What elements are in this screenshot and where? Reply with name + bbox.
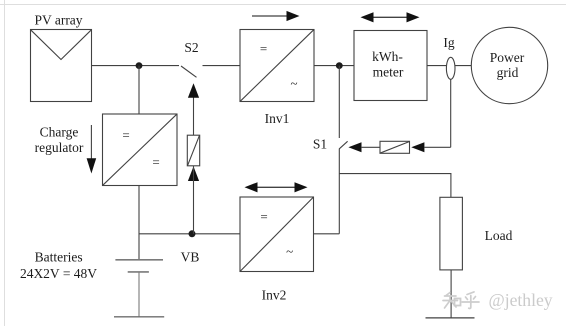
- svg-text:S1: S1: [313, 137, 327, 152]
- node: Inv1/S1 junction: [336, 62, 343, 69]
- load: [440, 197, 513, 270]
- node: PV/charge-regulator junction: [136, 62, 143, 69]
- wire: arrow to fuse: [361, 146, 380, 148]
- label Batteries: [20, 250, 97, 282]
- wire: S2 to Inv1: [203, 65, 241, 67]
- wire: resistor up to S2 blade: [193, 97, 195, 135]
- charge regulator U1 (DC-DC converter): [103, 114, 178, 186]
- svg-text:S2: S2: [184, 40, 198, 55]
- wire: battery bus to Inv2: [139, 233, 240, 235]
- wire: charge regulator down to battery: [138, 186, 140, 260]
- svg-text:=: =: [122, 128, 129, 143]
- op-amp arrow above Inv1 (power flow arrow): [252, 11, 300, 21]
- arrow up toward S2 (battery current IB): [188, 83, 199, 97]
- bidirectional arrow above Inv2: [245, 182, 308, 192]
- arrow toward S1 (current direction): [348, 142, 361, 152]
- inverter Inv2: [240, 197, 314, 303]
- svg-text:Charge: Charge: [40, 125, 79, 140]
- resistor (battery branch): [187, 135, 199, 166]
- svg-text:~: ~: [290, 75, 297, 90]
- wire: fuse branch to CT drop: [424, 146, 451, 148]
- arrow beside charge regulator (downward power flow): [87, 125, 97, 174]
- kWh-meter: [354, 31, 427, 101]
- svg-text:Ig: Ig: [443, 35, 454, 50]
- svg-text:=: =: [260, 41, 267, 56]
- battery B1 plates: [115, 260, 163, 317]
- wire: Inv2 output to S1 drop: [314, 233, 340, 235]
- ground (battery return bar): [114, 316, 164, 318]
- wire: CT ellipse down to fuse branch: [450, 79, 452, 147]
- wire: junction down to S1: [338, 66, 340, 138]
- svg-text:Inv2: Inv2: [262, 288, 287, 303]
- wire: kWh-meter to grid: [427, 65, 472, 67]
- svg-text:PV array: PV array: [34, 13, 82, 28]
- svg-text:=: =: [260, 209, 267, 224]
- svg-text:kWh-: kWh-: [372, 49, 403, 64]
- wire: junction down to charge regulator: [138, 66, 140, 114]
- watermark zhihu logo glyphs: [443, 292, 479, 309]
- node VB junction: [189, 230, 196, 237]
- switch S2: [181, 40, 199, 77]
- wire: S1 down to Inv2 output line: [338, 149, 340, 234]
- fuse (grid link): [380, 141, 410, 153]
- svg-text:grid: grid: [497, 65, 519, 80]
- svg-text:Power: Power: [490, 50, 525, 65]
- svg-text:@jethley: @jethley: [489, 290, 553, 310]
- ground (load return bar): [426, 317, 475, 319]
- wire: load to ground bar: [450, 270, 452, 318]
- svg-text:Load: Load: [485, 228, 513, 243]
- power grid: [471, 27, 547, 103]
- wire: Inv1 to kWh-meter: [314, 65, 354, 67]
- arrow toward fuse (current direction): [411, 142, 424, 152]
- wire: PV array to S2: [92, 65, 180, 67]
- switch S1: [313, 137, 348, 152]
- svg-text:~: ~: [286, 244, 293, 259]
- svg-text:=: =: [152, 154, 159, 169]
- wire: VB node up to resistor: [193, 166, 195, 234]
- svg-text:Inv1: Inv1: [265, 111, 290, 126]
- wire: S1 branch to load: [339, 174, 451, 198]
- svg-text:24X2V = 48V: 24X2V = 48V: [20, 266, 97, 281]
- svg-text:regulator: regulator: [35, 140, 84, 155]
- arrow up into resistor (battery current IB): [188, 166, 199, 181]
- svg-text:meter: meter: [373, 65, 404, 80]
- inverter Inv1: [240, 30, 314, 127]
- svg-text:Batteries: Batteries: [35, 250, 83, 265]
- label Charge regulator: [35, 125, 84, 156]
- current transformer Ig (ellipse): [446, 57, 455, 79]
- bidirectional arrow above kWh-meter: [361, 12, 420, 22]
- PV array: [31, 13, 92, 102]
- svg-text:VB: VB: [181, 250, 200, 265]
